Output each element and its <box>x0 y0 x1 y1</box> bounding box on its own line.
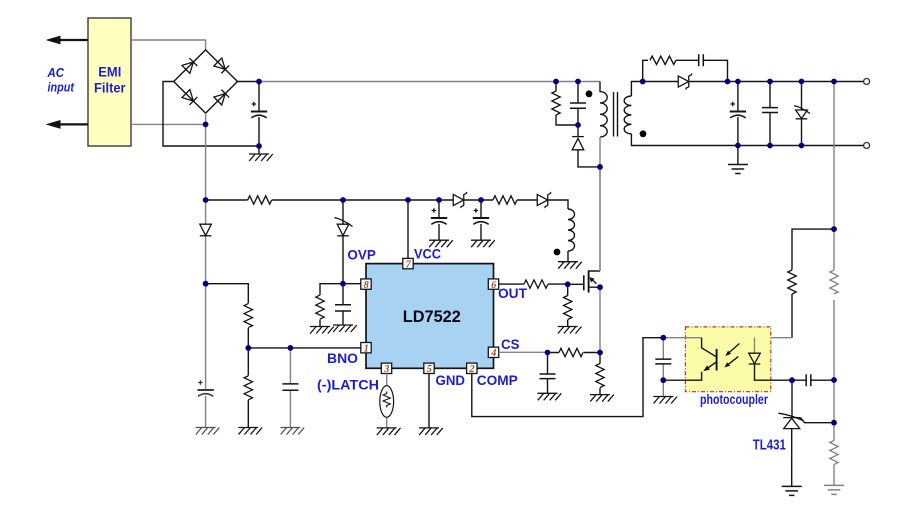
svg-text:(-)LATCH: (-)LATCH <box>317 376 379 392</box>
svg-text:6: 6 <box>491 280 497 291</box>
svg-text:Filter: Filter <box>94 80 126 96</box>
svg-text:8: 8 <box>364 280 370 291</box>
svg-text:3: 3 <box>383 364 389 375</box>
svg-text:1: 1 <box>364 344 369 355</box>
svg-text:VCC: VCC <box>414 245 441 261</box>
svg-text:BNO: BNO <box>327 350 358 366</box>
svg-text:CS: CS <box>501 336 520 352</box>
svg-text:EMI: EMI <box>98 63 121 79</box>
svg-text:4: 4 <box>490 348 496 359</box>
svg-text:COMP: COMP <box>477 372 518 388</box>
svg-text:2: 2 <box>468 364 475 375</box>
svg-text:7: 7 <box>406 259 412 270</box>
svg-text:OVP: OVP <box>347 247 376 263</box>
svg-text:AC: AC <box>47 65 65 80</box>
svg-text:5: 5 <box>427 364 432 375</box>
svg-text:LD7522: LD7522 <box>403 308 461 326</box>
svg-text:OUT: OUT <box>498 285 527 301</box>
svg-text:TL431: TL431 <box>753 437 786 454</box>
svg-text:input: input <box>48 80 75 95</box>
svg-text:photocoupler: photocoupler <box>700 392 769 407</box>
svg-text:GND: GND <box>436 372 466 388</box>
